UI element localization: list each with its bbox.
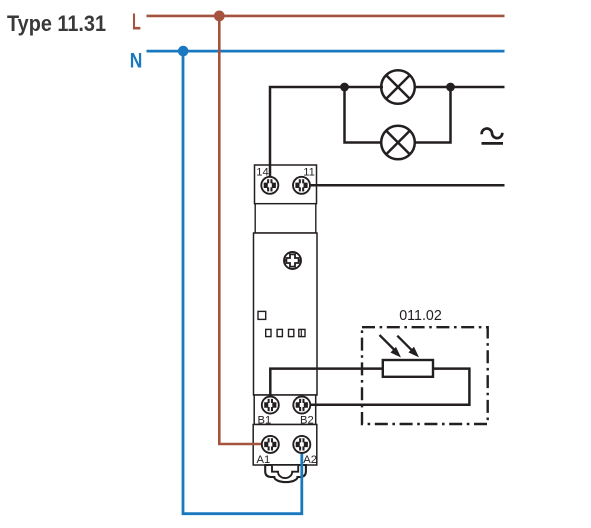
relay module U1 neck	[255, 204, 316, 233]
node lamp bus right	[446, 83, 455, 92]
relay module U1 body	[254, 233, 318, 395]
terminal screw 11	[293, 177, 310, 194]
lamp E1	[381, 70, 415, 104]
svg-text:N: N	[130, 48, 143, 72]
wire photoresistor return to B2	[310, 369, 469, 405]
wire lower lamp branch left	[345, 87, 384, 143]
terminal screw A2	[293, 436, 310, 453]
wire terminal 14 to lamp bus	[270, 87, 383, 177]
lamp E2	[381, 126, 415, 160]
svg-text:L: L	[132, 9, 141, 35]
relay module U1 A terminal block	[253, 425, 317, 466]
sensor box 011.02 dash-dot border	[362, 327, 488, 424]
wire lamp bus right to supply	[413, 86, 505, 89]
svg-text:B1: B1	[258, 415, 272, 427]
wire B1 to photoresistor	[270, 369, 383, 397]
node N junction	[178, 46, 189, 57]
node L junction	[214, 11, 225, 22]
photoresistor body	[383, 360, 433, 377]
wire lower lamp branch right	[413, 87, 451, 143]
AC supply symbol	[482, 129, 504, 144]
svg-text:Type 11.31: Type 11.31	[7, 11, 106, 36]
relay module U1 top terminal block	[255, 165, 317, 204]
wire terminal 11 to supply	[310, 184, 504, 187]
relay module U1 B terminal block	[254, 395, 316, 425]
svg-text:A1: A1	[257, 454, 271, 466]
indicator square	[258, 311, 266, 319]
DIP switch squares	[266, 329, 305, 336]
terminal screw A1	[262, 436, 279, 453]
terminal screw B2	[293, 397, 310, 414]
svg-text:B2: B2	[300, 415, 314, 427]
wire L phase line	[147, 15, 505, 18]
light arrow 2	[397, 336, 419, 358]
terminal screw 14	[261, 177, 278, 194]
svg-text:A2: A2	[303, 454, 317, 466]
node lamp bus left	[340, 83, 349, 92]
wire L drop to terminal A1	[219, 16, 261, 444]
light arrow 1	[380, 335, 402, 358]
wire N drop to terminal A2	[183, 51, 302, 514]
svg-text:011.02: 011.02	[399, 307, 442, 324]
DIN rail clip	[265, 465, 306, 482]
terminal screw B1	[262, 397, 279, 414]
wire N neutral line	[147, 50, 505, 53]
adjustment screw	[284, 252, 301, 269]
